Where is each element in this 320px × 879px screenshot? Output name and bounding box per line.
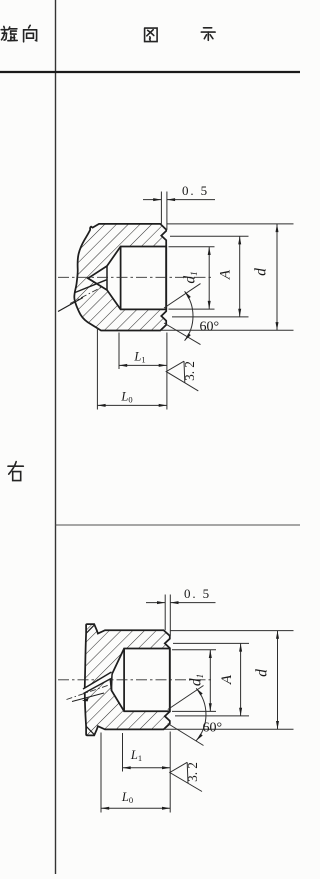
dim L0 dimension line (fig2): [101, 807, 170, 809]
helix reference dash-dot line (fig2): [67, 685, 110, 700]
svg-text:60°: 60°: [203, 721, 223, 736]
dim A dimension line (fig2): [240, 643, 242, 716]
table header rule: [0, 71, 300, 73]
helix direction line 1: [75, 280, 107, 293]
dim L1 dimension line: [119, 364, 167, 366]
svg-text:3. 2: 3. 2: [185, 762, 200, 782]
dim 0.5 extension lines (fig2): [164, 595, 166, 631]
helix direction line 3: [58, 298, 83, 312]
center hole cavity outline: [111, 649, 170, 712]
dim 60deg leader lines (fig2): [168, 686, 204, 710]
dim 0.5 dimension line: [143, 199, 161, 201]
dim A extension lines (fig2): [173, 642, 249, 644]
cone/chamfer transition edge: [111, 674, 114, 691]
roughness symbol 3.2: [166, 361, 198, 391]
dim L0 extension line: [96, 328, 98, 410]
flank arrowhead (fig2): [82, 698, 89, 702]
svg-text:0. 5: 0. 5: [182, 183, 209, 198]
header text 旋: [1, 26, 17, 40]
dim L0 extension line (fig2): [100, 733, 102, 813]
center hole cavity outline: [88, 247, 166, 310]
counterbore wall edge: [123, 649, 125, 712]
dim d1 extension lines (fig2): [172, 649, 216, 651]
centerline: [58, 679, 214, 681]
svg-text:d: d: [254, 669, 271, 677]
svg-text:A: A: [219, 674, 235, 685]
svg-text:0. 5: 0. 5: [184, 586, 211, 601]
dim A extension lines: [170, 235, 249, 237]
thread flank line b (fig2): [84, 679, 112, 694]
table row separator: [56, 524, 301, 526]
header text 图: [145, 28, 158, 41]
dim L0 dimension line: [97, 404, 166, 406]
svg-text:A: A: [218, 269, 234, 280]
thread flank white band (fig2): [83, 672, 112, 694]
thread tooth chamfer line top (fig2): [86, 625, 94, 633]
dim d extension lines: [167, 223, 294, 225]
cone/chamfer transition edge: [106, 266, 108, 290]
thread tooth chamfer line bottom (fig2): [86, 726, 94, 734]
svg-text:60°: 60°: [200, 320, 220, 335]
section material with hatching: [74, 224, 166, 331]
dim A dimension line: [239, 236, 241, 317]
dim d1 extension lines: [169, 246, 215, 248]
dim 60deg arc: [185, 291, 193, 340]
svg-text:d: d: [252, 268, 269, 276]
dim L1 dimension line (fig2): [123, 767, 171, 769]
dim 0.5 dimension line (fig2): [146, 602, 165, 604]
svg-text:3. 2: 3. 2: [182, 361, 197, 381]
row label 右: [8, 462, 23, 481]
dim d dimension line: [276, 224, 278, 330]
dim 0.5 extension lines: [160, 192, 162, 224]
dim d1 dimension line (fig2): [209, 650, 211, 712]
part outline: [74, 224, 166, 331]
dim d dimension line (fig2): [277, 631, 279, 730]
section material with hatching: [85, 624, 170, 735]
thread flank line c (fig2): [72, 693, 104, 702]
dim L1 extension lines (fig2): [122, 733, 124, 772]
dim d1 dimension line: [208, 247, 210, 309]
roughness symbol 3.2 (fig2): [170, 762, 202, 791]
dim d extension lines (fig2): [170, 630, 294, 632]
helix direction line 2 (dash-dot): [70, 288, 101, 304]
centerline: [58, 276, 214, 278]
header text 示: [201, 28, 215, 41]
part outline: [85, 624, 170, 735]
counterbore wall edge: [120, 247, 122, 310]
dim 60deg arc (fig2): [196, 688, 206, 740]
thread flank line a (fig2): [83, 672, 112, 689]
table column line: [55, 0, 57, 874]
dim 60deg leader lines: [164, 284, 201, 308]
header text 向: [24, 25, 37, 42]
dim L1 extension lines: [118, 333, 120, 370]
